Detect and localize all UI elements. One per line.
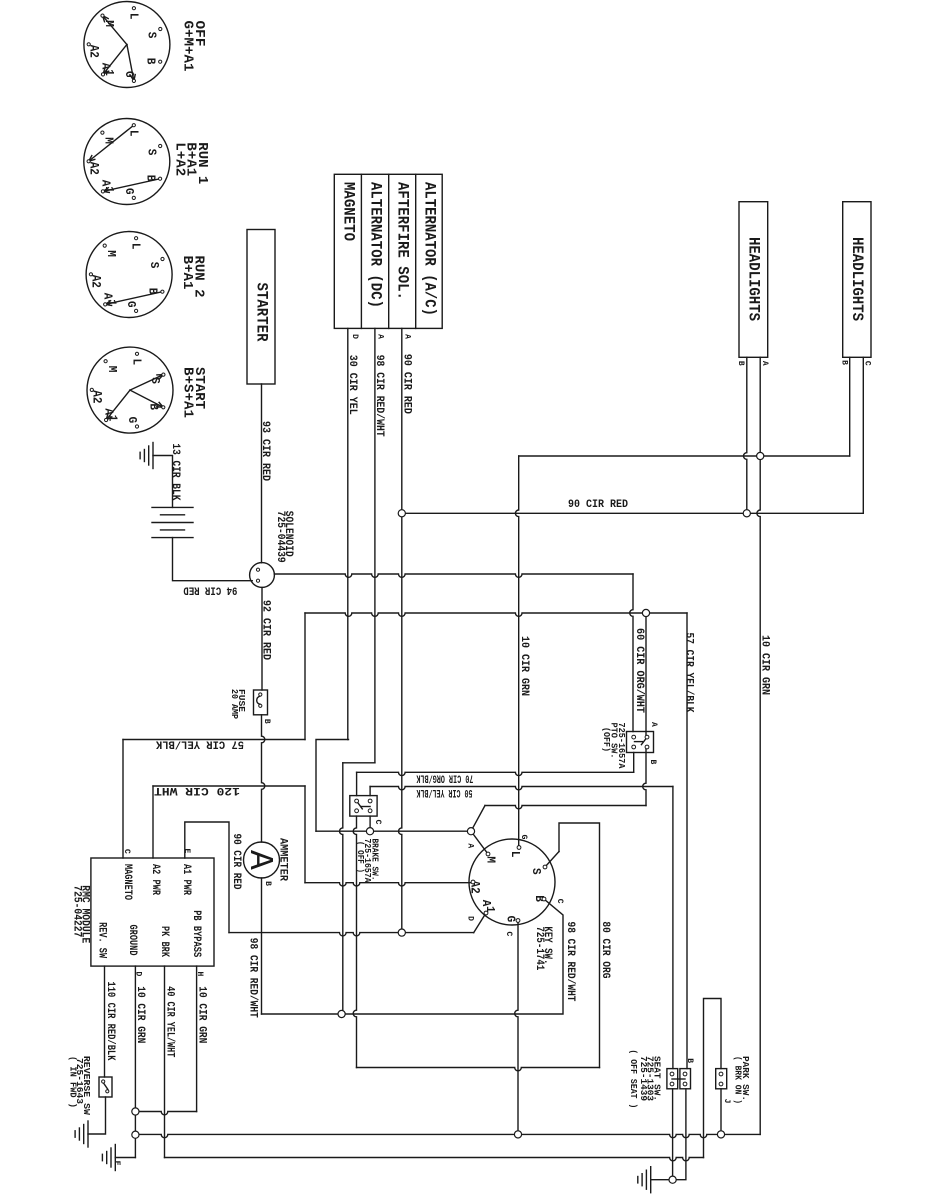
svg-text:20 AMP: 20 AMP (229, 689, 239, 719)
svg-text:L: L (129, 243, 141, 250)
svg-text:98 CIR RED/WHT: 98 CIR RED/WHT (373, 355, 386, 437)
svg-text:C: C (555, 899, 564, 904)
svg-text:REV. SW: REV. SW (95, 922, 107, 959)
svg-text:S: S (145, 32, 157, 39)
svg-text:13 CIR BLK: 13 CIR BLK (169, 443, 182, 501)
svg-text:10 CIR GRN: 10 CIR GRN (134, 986, 147, 1043)
svg-text:S: S (529, 868, 541, 875)
svg-text:A2: A2 (88, 275, 103, 288)
svg-text:PK BRK: PK BRK (158, 926, 170, 958)
svg-text:A2: A2 (86, 45, 101, 58)
svg-text:MAGNETO: MAGNETO (339, 182, 357, 241)
svg-text:D: D (466, 916, 475, 921)
svg-text:10 CIR GRN: 10 CIR GRN (758, 635, 771, 695)
svg-text:B: B (262, 719, 271, 724)
svg-text:HEADLIGHTS: HEADLIGHTS (744, 237, 762, 321)
svg-text:725-04439: 725-04439 (274, 511, 286, 563)
svg-text:G: G (122, 188, 134, 195)
svg-text:L: L (508, 851, 520, 858)
svg-text:98 CIR RED/WHT: 98 CIR RED/WHT (246, 938, 259, 1018)
svg-text:PB BYPASS: PB BYPASS (190, 910, 202, 957)
svg-text:A: A (649, 722, 658, 727)
svg-text:D: D (350, 334, 359, 339)
svg-text:725-04227: 725-04227 (70, 885, 82, 937)
svg-text:ALTERNATOR (A/C): ALTERNATOR (A/C) (420, 182, 438, 316)
svg-text:L: L (130, 359, 142, 366)
svg-text:94 CIR RED: 94 CIR RED (183, 583, 237, 596)
svg-text:70 CIR ORG/BLK: 70 CIR ORG/BLK (416, 772, 473, 784)
svg-text:( OFF SEAT ): ( OFF SEAT ) (628, 1049, 638, 1108)
svg-text:120 CIR WHT: 120 CIR WHT (154, 784, 240, 797)
svg-text:L: L (126, 130, 138, 137)
svg-text:AFTERFIRE SOL.: AFTERFIRE SOL. (393, 182, 411, 300)
svg-text:92 CIR RED: 92 CIR RED (259, 600, 272, 660)
svg-text:57 CIR YEL/BLK: 57 CIR YEL/BLK (155, 737, 244, 750)
svg-text:AMMETER: AMMETER (276, 838, 289, 882)
svg-text:L: L (126, 13, 138, 20)
svg-text:80 CIR ORG: 80 CIR ORG (599, 921, 612, 978)
svg-text:G: G (504, 916, 516, 923)
svg-text:S: S (147, 262, 159, 269)
svg-text:G+M+A1: G+M+A1 (180, 21, 196, 72)
svg-text:M: M (105, 366, 117, 373)
svg-text:B+A1: B+A1 (180, 256, 196, 290)
svg-text:M: M (483, 856, 495, 863)
svg-text:93 CIR RED: 93 CIR RED (259, 421, 272, 481)
svg-text:B: B (648, 760, 657, 765)
svg-text:MAGNETO: MAGNETO (121, 864, 133, 900)
svg-text:B+S+A1: B+S+A1 (180, 367, 196, 418)
svg-text:60 CIR ORG/WHT: 60 CIR ORG/WHT (633, 628, 646, 713)
svg-text:C: C (373, 820, 382, 825)
svg-text:90 CIR RED: 90 CIR RED (568, 499, 628, 512)
svg-text:C: C (504, 932, 513, 937)
svg-text:40 CIR YEL/WHT: 40 CIR YEL/WHT (163, 986, 176, 1057)
svg-text:A: A (760, 361, 769, 366)
svg-text:ALTERNATOR (DC): ALTERNATOR (DC) (366, 182, 384, 308)
svg-text:HEADLIGHTS: HEADLIGHTS (848, 237, 866, 321)
svg-text:B: B (839, 360, 848, 365)
svg-text:57 CIR YEL/BLK: 57 CIR YEL/BLK (682, 633, 695, 714)
svg-text:B: B (685, 1058, 694, 1063)
svg-text:L+A2: L+A2 (172, 142, 188, 176)
svg-text:SEAT SW.: SEAT SW. (651, 1056, 661, 1101)
svg-text:A: A (402, 334, 411, 339)
svg-text:30 CIR YEL: 30 CIR YEL (346, 355, 359, 415)
svg-text:G: G (125, 417, 137, 424)
svg-text:B: B (736, 361, 745, 366)
svg-text:A2 PWR: A2 PWR (149, 864, 161, 896)
svg-text:A: A (241, 850, 278, 870)
svg-text:90 CIR RED: 90 CIR RED (400, 354, 413, 414)
svg-text:B: B (263, 881, 272, 886)
svg-text:725-1741: 725-1741 (533, 926, 546, 970)
svg-text:725-1657A: 725-1657A (616, 723, 626, 770)
svg-text:STARTER: STARTER (252, 283, 270, 343)
svg-text:110 CIR RED/BLK: 110 CIR RED/BLK (104, 982, 117, 1062)
svg-text:J: J (722, 1099, 731, 1104)
svg-text:S: S (145, 149, 157, 156)
svg-text:G: G (124, 301, 136, 308)
svg-text:PARK SW.: PARK SW. (740, 1056, 750, 1101)
svg-text:10 CIR GRN: 10 CIR GRN (195, 986, 208, 1043)
svg-text:90 CIR RED: 90 CIR RED (230, 834, 243, 890)
svg-text:M: M (104, 250, 116, 257)
svg-text:A1 PWR: A1 PWR (180, 864, 192, 896)
svg-text:10 CIR GRN: 10 CIR GRN (518, 636, 531, 696)
svg-text:E: E (182, 849, 191, 854)
svg-text:GROUND: GROUND (126, 925, 138, 956)
svg-text:E: E (112, 1161, 121, 1166)
svg-text:A: A (466, 843, 475, 848)
svg-text:G: G (519, 835, 528, 840)
svg-text:A2: A2 (89, 390, 104, 403)
svg-text:98 CIR RED/WHT: 98 CIR RED/WHT (564, 922, 577, 1002)
svg-text:50 CIR YEL/BLK: 50 CIR YEL/BLK (416, 787, 472, 799)
svg-text:A: A (375, 334, 384, 339)
svg-text:B: B (143, 58, 155, 65)
svg-text:A2: A2 (86, 162, 101, 175)
svg-text:( IN FWD ): ( IN FWD ) (67, 1056, 77, 1108)
